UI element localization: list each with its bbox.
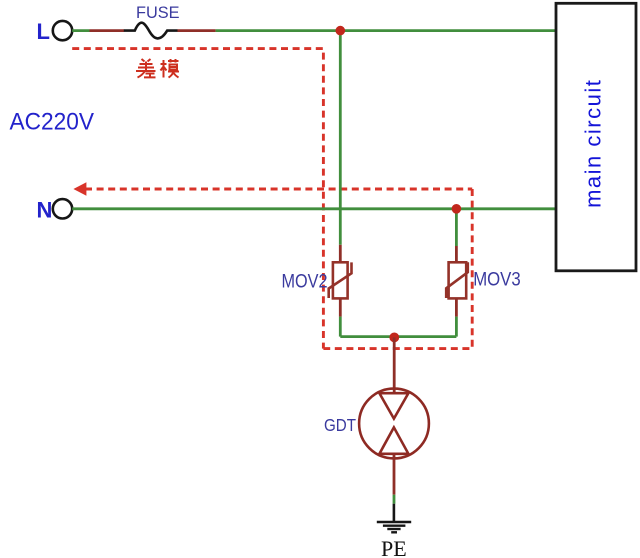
junction dot on L wire	[336, 26, 346, 36]
wire PE green stub	[393, 495, 396, 504]
svg-text:PE: PE	[381, 536, 407, 558]
wire L red stub right of fuse	[178, 29, 216, 32]
svg-text:L: L	[37, 19, 50, 44]
junction dot on N wire	[452, 204, 462, 214]
wire L green to main circuit	[216, 29, 556, 32]
dashed loop 差模 top and left	[72, 49, 323, 349]
main circuit box	[556, 3, 636, 271]
svg-text:MOV3: MOV3	[473, 269, 521, 291]
wire GDT bottom lead red	[393, 454, 396, 495]
label 差模 (drawn strokes)	[136, 59, 179, 78]
wire PE black stub	[393, 504, 396, 522]
varistor MOV2	[329, 262, 352, 298]
wire MOV3 bottom lead red	[455, 298, 458, 316]
svg-text:main circuit: main circuit	[581, 79, 606, 208]
dashed arrow line (top edge of MOV box extended)	[85, 188, 472, 191]
dashed box right and bottom edges	[323, 189, 472, 349]
ground PE symbol	[377, 522, 411, 532]
varistor MOV3	[446, 262, 468, 298]
terminal N	[53, 199, 72, 218]
svg-text:GDT: GDT	[324, 415, 356, 435]
arrowhead left	[73, 182, 86, 196]
wire vertical green from N junction	[455, 209, 458, 246]
svg-text:MOV2: MOV2	[282, 271, 328, 293]
svg-text:AC220V: AC220V	[10, 109, 95, 136]
wire MOV2 top lead red	[339, 245, 342, 263]
svg-text:FUSE: FUSE	[136, 3, 180, 22]
svg-text:N: N	[37, 198, 53, 223]
wire MOV3 bottom lead green	[455, 317, 458, 337]
wire N green to main circuit	[72, 207, 556, 210]
wire MOV3 top lead red	[455, 246, 458, 263]
wire L red stub left of fuse	[90, 29, 125, 32]
wire MOV2 bottom lead green	[339, 317, 342, 337]
junction dot mid node	[389, 333, 399, 343]
wire MOV2 bottom lead red	[339, 298, 342, 316]
wire GDT top lead red	[393, 337, 396, 393]
fuse FUSE	[124, 23, 178, 39]
wire bottom green bus	[340, 335, 456, 338]
wire vertical green from L junction	[339, 31, 342, 245]
wire L green stub	[72, 29, 89, 32]
gas discharge tube GDT	[359, 389, 429, 459]
terminal L	[53, 21, 72, 40]
